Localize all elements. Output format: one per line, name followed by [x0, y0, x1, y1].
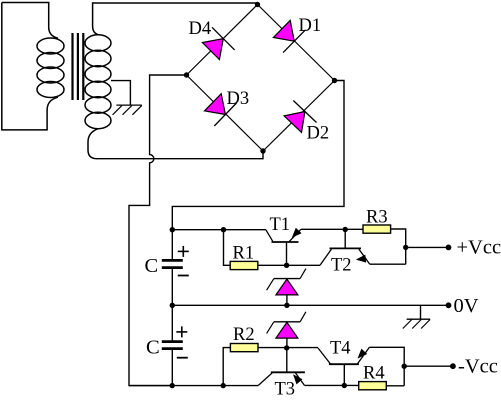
wire bridge right node to positive rail [172, 81, 344, 230]
transistor T2 [320, 230, 370, 266]
wire R3 to +Vcc branch [391, 229, 406, 264]
transistor T4 [318, 347, 369, 385]
svg-text:0V: 0V [454, 295, 479, 317]
node R2 branch [221, 383, 226, 388]
0V rail [172, 304, 448, 306]
svg-text:T4: T4 [330, 339, 351, 359]
capacitor C2 plates [162, 305, 183, 385]
bridge node bottom [260, 148, 265, 153]
transformer primary winding [2, 3, 64, 130]
svg-text:-Vcc: -Vcc [458, 356, 498, 378]
wire R2 branch [223, 348, 230, 386]
ground (transformer center tap) [113, 105, 142, 115]
diode D2 [284, 101, 316, 133]
svg-text:D2: D2 [307, 124, 330, 144]
node cap C1/C2 midpoint [170, 303, 175, 308]
wire T3 emitter rail [304, 384, 358, 386]
wire T4 emitter to -Vcc branch [369, 347, 404, 386]
terminal +Vcc [446, 245, 452, 251]
svg-text:T2: T2 [331, 256, 352, 276]
zener diode ZD2 [267, 312, 306, 338]
svg-text:C: C [146, 337, 160, 359]
node top rail / R1 [221, 227, 226, 232]
C1 polarity minus [178, 275, 189, 277]
capacitor C1 plates [162, 230, 183, 306]
terminal 0V [446, 302, 452, 308]
wire R2 to T4 collector [258, 347, 318, 349]
resistor R4 [359, 382, 387, 390]
C2 polarity plus [176, 326, 187, 337]
svg-text:C: C [145, 255, 159, 277]
svg-text:T1: T1 [270, 215, 291, 235]
transformer core [73, 33, 84, 100]
bottom rail (negative unregulated) [129, 385, 258, 387]
node zener midpoint [284, 303, 289, 308]
wire to -Vcc terminal [404, 365, 453, 367]
wire R4 to -Vcc branch [386, 385, 404, 387]
svg-text:D3: D3 [227, 89, 250, 109]
transistor T3 [258, 348, 305, 386]
bridge node top [255, 2, 260, 7]
node zener/T3 base [284, 345, 289, 350]
node +Vcc tap [403, 245, 408, 250]
wire to +Vcc terminal [406, 246, 449, 248]
zener diode ZD1 [267, 269, 306, 295]
C1 polarity plus [178, 246, 189, 257]
wire top rail left [172, 229, 266, 231]
node T2 base [343, 227, 348, 232]
node C2 bottom [170, 383, 175, 388]
bridge node right [332, 78, 337, 83]
wire secondary bottom to bridge bottom node [97, 151, 263, 159]
wire R1 branch [224, 230, 231, 266]
svg-text:T3: T3 [275, 380, 296, 400]
svg-text:+Vcc: +Vcc [457, 237, 501, 259]
diode D4 [202, 27, 234, 59]
bridge rectifier edges (wires) [187, 5, 335, 152]
wire T1 emitter to R3 [301, 228, 363, 230]
C2 polarity minus [177, 357, 188, 359]
wire R1 to T1 base node [258, 264, 320, 266]
ground (0V rail) [403, 305, 430, 328]
diode D1 [273, 20, 305, 52]
transformer secondary winding [85, 3, 258, 159]
diode D3 [205, 94, 237, 126]
wire center tap to ground [111, 81, 130, 106]
svg-text:R1: R1 [233, 244, 255, 264]
node -Vcc tap [402, 364, 407, 369]
svg-text:R3: R3 [366, 208, 388, 228]
wire bridge left node to negative rail [129, 75, 187, 386]
svg-text:D4: D4 [189, 19, 212, 39]
svg-text:R2: R2 [233, 325, 255, 345]
resistor R1 [230, 261, 258, 269]
wire ZD1 anode to 0V [286, 295, 288, 305]
resistor R3 [363, 225, 391, 233]
bridge node left [184, 72, 189, 77]
node top rail / cap C1 [170, 227, 175, 232]
node T1 base / zener [284, 263, 289, 268]
resistor R2 [230, 344, 258, 352]
terminal -Vcc [450, 363, 456, 369]
svg-text:R4: R4 [363, 364, 385, 384]
svg-text:D1: D1 [299, 16, 322, 36]
wire T2 emitter to +Vcc branch [370, 263, 406, 265]
node T4 base [342, 383, 347, 388]
transistor T1 [266, 228, 302, 265]
wire ZD2 anode down [286, 338, 288, 348]
